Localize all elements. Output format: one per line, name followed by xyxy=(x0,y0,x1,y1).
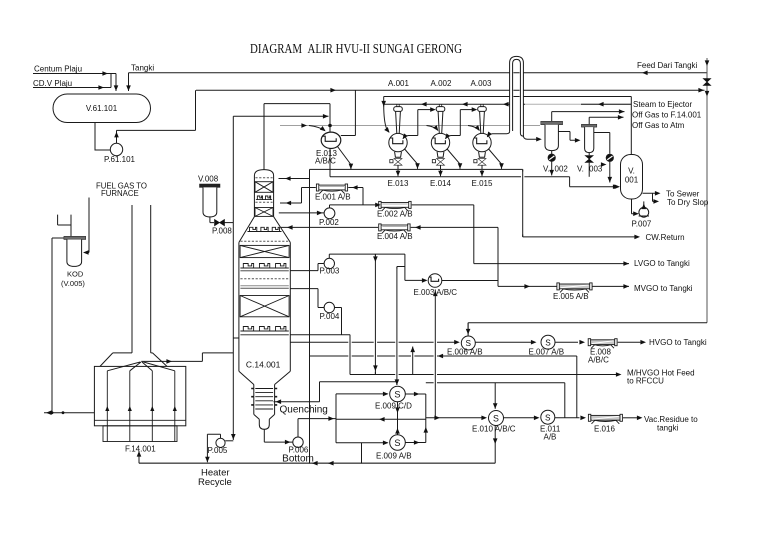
svg-text:To Dry Slop: To Dry Slop xyxy=(667,198,709,207)
svg-text:LVGO to Tangki: LVGO to Tangki xyxy=(634,259,690,268)
svg-text:E.016: E.016 xyxy=(594,425,615,434)
svg-text:V.61.101: V.61.101 xyxy=(86,104,118,113)
svg-text:KOD: KOD xyxy=(67,270,84,279)
svg-text:P.004: P.004 xyxy=(320,312,340,321)
svg-text:A.003: A.003 xyxy=(471,79,492,88)
svg-text:CW.Return: CW.Return xyxy=(646,233,685,242)
svg-text:MVGO to Tangki: MVGO to Tangki xyxy=(634,284,693,293)
svg-text:003: 003 xyxy=(589,165,603,174)
svg-text:Recycle: Recycle xyxy=(198,477,232,488)
svg-text:E.009 C/D: E.009 C/D xyxy=(375,402,412,411)
svg-text:P.003: P.003 xyxy=(320,267,340,276)
svg-text:Bottom: Bottom xyxy=(282,454,314,465)
svg-text:002: 002 xyxy=(555,165,569,174)
svg-text:Quenching: Quenching xyxy=(280,405,328,416)
svg-text:P.008: P.008 xyxy=(212,227,232,236)
svg-text:Feed Dari Tangki: Feed Dari Tangki xyxy=(637,61,698,70)
svg-text:A/B/C: A/B/C xyxy=(588,356,609,365)
svg-text:P.61.101: P.61.101 xyxy=(104,155,136,164)
svg-text:FURNACE: FURNACE xyxy=(101,189,139,198)
svg-text:E.009 A/B: E.009 A/B xyxy=(376,452,412,461)
svg-text:Tangki: Tangki xyxy=(131,64,154,73)
svg-text:(V.005): (V.005) xyxy=(61,279,85,288)
svg-text:P.005: P.005 xyxy=(208,446,228,455)
svg-text:A/B/C: A/B/C xyxy=(315,157,336,166)
svg-text:S: S xyxy=(545,413,551,422)
svg-text:P.007: P.007 xyxy=(632,220,652,229)
svg-text:E.010 A/B/C: E.010 A/B/C xyxy=(472,425,516,434)
svg-text:V.: V. xyxy=(577,165,584,174)
svg-text:CD.V Plaju: CD.V Plaju xyxy=(33,79,72,88)
svg-text:A/B: A/B xyxy=(544,433,557,442)
svg-text:Steam to Ejector: Steam to Ejector xyxy=(633,100,692,109)
svg-text:V.008: V.008 xyxy=(198,175,219,184)
svg-text:E.004 A/B: E.004 A/B xyxy=(377,232,413,241)
svg-text:F.14.001: F.14.001 xyxy=(125,445,156,454)
svg-text:V.: V. xyxy=(628,167,635,176)
svg-text:Centum Plaju: Centum Plaju xyxy=(34,65,82,74)
svg-text:HVGO to Tangki: HVGO to Tangki xyxy=(649,338,707,347)
svg-text:E.006 A/B: E.006 A/B xyxy=(447,348,483,357)
svg-text:S: S xyxy=(493,413,499,423)
svg-text:E.002 A/B: E.002 A/B xyxy=(377,210,413,219)
svg-text:DIAGRAM ALIR HVU-II SUNGAI GE: DIAGRAM ALIR HVU-II SUNGAI GERONG xyxy=(250,41,462,56)
svg-text:tangki: tangki xyxy=(657,424,679,433)
svg-text:S: S xyxy=(545,338,551,347)
svg-text:Off Gas to F.14.001: Off Gas to F.14.001 xyxy=(632,111,702,120)
svg-text:Off Gas to Atm: Off Gas to Atm xyxy=(632,121,685,130)
svg-text:E.005 A/B: E.005 A/B xyxy=(553,292,589,301)
svg-text:S: S xyxy=(394,390,400,400)
svg-text:P.002: P.002 xyxy=(319,218,339,227)
svg-text:E.001 A/B: E.001 A/B xyxy=(315,193,351,202)
svg-text:C.14.001: C.14.001 xyxy=(246,360,281,370)
svg-text:S: S xyxy=(394,438,400,448)
svg-text:E.013: E.013 xyxy=(388,179,409,188)
svg-text:V.: V. xyxy=(543,165,550,174)
svg-text:A.001: A.001 xyxy=(388,79,409,88)
svg-text:001: 001 xyxy=(625,176,639,185)
svg-text:A.002: A.002 xyxy=(431,79,452,88)
svg-text:E.007 A/B: E.007 A/B xyxy=(529,348,565,357)
svg-text:to RFCCU: to RFCCU xyxy=(627,377,664,386)
svg-text:E.015: E.015 xyxy=(472,179,493,188)
svg-text:E.014: E.014 xyxy=(430,179,451,188)
